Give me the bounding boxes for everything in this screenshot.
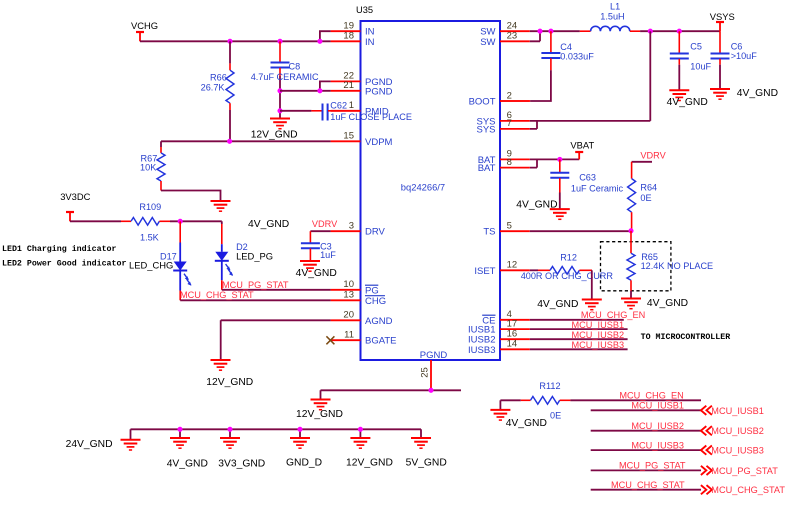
- junction C5: [677, 29, 682, 34]
- svg-text:U35: U35: [356, 5, 373, 15]
- svg-text:BOOT: BOOT: [469, 97, 496, 108]
- junction bus GND_D: [297, 427, 302, 432]
- wire pin23 loop: [530, 31, 540, 41]
- wire SYS net: [530, 31, 651, 121]
- svg-text:C62: C62: [330, 101, 347, 111]
- pin 25 PGND: [420, 350, 448, 390]
- svg-text:TO MICROCONTROLLER: TO MICROCONTROLLER: [641, 333, 731, 342]
- resistor R12: [521, 253, 614, 281]
- svg-text:4V_GND: 4V_GND: [296, 268, 337, 279]
- svg-text:R109: R109: [139, 202, 161, 212]
- svg-text:R12: R12: [560, 253, 577, 263]
- svg-text:18: 18: [343, 31, 354, 42]
- svg-text:C5: C5: [690, 42, 702, 52]
- wire MCU_IUSB3 to pin14: [530, 340, 628, 350]
- ground 4V_GND bus: [167, 438, 208, 470]
- svg-text:TS: TS: [483, 227, 495, 238]
- svg-text:CHG: CHG: [365, 296, 386, 307]
- ground 24V_GND: [66, 439, 141, 450]
- offpage connector MCU_IUSB1: [701, 406, 764, 416]
- svg-text:24V_GND: 24V_GND: [66, 439, 113, 450]
- svg-text:10uF: 10uF: [690, 61, 711, 71]
- svg-text:4V_GND: 4V_GND: [537, 299, 578, 310]
- svg-text:12: 12: [507, 260, 518, 271]
- pin 22 PGND: [331, 71, 393, 88]
- wire MCU_CHG_EN to pin4: [530, 310, 645, 320]
- ground at C6: [710, 88, 778, 99]
- wire VCHG main: [140, 40, 331, 42]
- wire VDRV stub: [632, 151, 667, 162]
- svg-text:MCU_IUSB1: MCU_IUSB1: [572, 320, 625, 330]
- wire VDPM: [161, 140, 331, 142]
- pin 3 DRV: [331, 221, 386, 238]
- pin 9 BAT: [478, 149, 530, 166]
- resistor R109: [121, 202, 170, 243]
- pin 16 IUSB2: [468, 329, 530, 346]
- junction C8-PGND: [277, 88, 282, 93]
- label TO MICROCONTROLLER: [641, 333, 731, 342]
- ground at C3: [296, 261, 337, 279]
- svg-text:L1: L1: [610, 2, 620, 12]
- offpage connector MCU_IUSB3: [701, 446, 764, 456]
- wire MCU_CHG_EN row: [570, 391, 701, 401]
- wire pin8 loop: [530, 159, 537, 167]
- pin 17 IUSB1: [468, 318, 530, 335]
- svg-text:PGND: PGND: [365, 86, 393, 97]
- svg-text:R64: R64: [640, 182, 657, 192]
- capacitor C8: [251, 41, 319, 91]
- wire R12 to ground: [591, 270, 593, 298]
- pin 14 IUSB3: [468, 339, 530, 356]
- junction bus 4V: [177, 427, 182, 432]
- pin 8 BAT: [478, 157, 530, 174]
- svg-text:4V_GND: 4V_GND: [506, 418, 547, 429]
- junction VCHG-C8: [277, 39, 282, 44]
- capacitor C63: [550, 159, 623, 208]
- svg-text:DRV: DRV: [365, 227, 386, 238]
- junction TS-R64-R65: [628, 228, 633, 233]
- junction SW-pin23: [537, 29, 542, 34]
- pin 7 SYS: [476, 118, 529, 135]
- svg-text:4V_GND: 4V_GND: [737, 88, 778, 99]
- svg-text:13: 13: [343, 290, 354, 301]
- svg-text:0E: 0E: [640, 193, 651, 203]
- svg-text:MCU_PG_STAT: MCU_PG_STAT: [222, 280, 289, 290]
- svg-text:0.033uF: 0.033uF: [560, 52, 594, 62]
- svg-text:7: 7: [507, 118, 512, 129]
- pin 1 PMID: [331, 100, 389, 117]
- svg-text:MCU_CHG_EN: MCU_CHG_EN: [619, 391, 683, 401]
- wire pin7 loop: [530, 121, 537, 129]
- svg-text:4V_GND: 4V_GND: [516, 200, 557, 211]
- ground 3V3_GND bus: [218, 438, 265, 470]
- svg-text:8: 8: [507, 157, 512, 168]
- ground 12V_GND at PGND: [296, 400, 343, 421]
- capacitor C62: [280, 101, 412, 123]
- svg-text:bq24266/7: bq24266/7: [401, 182, 445, 193]
- svg-text:VDRV: VDRV: [640, 151, 666, 161]
- svg-text:SYS: SYS: [476, 124, 495, 135]
- svg-text:VBAT: VBAT: [570, 140, 594, 151]
- node VSYS port: [710, 11, 735, 31]
- svg-text:MCU_IUSB2: MCU_IUSB2: [572, 330, 625, 340]
- svg-text:1: 1: [349, 100, 354, 111]
- node 3V3DC port: [60, 191, 90, 221]
- svg-text:PG: PG: [365, 285, 379, 296]
- svg-text:MCU_IUSB2: MCU_IUSB2: [711, 426, 764, 436]
- svg-text:IUSB3: IUSB3: [468, 345, 495, 356]
- pin 13 CHG: [331, 290, 387, 307]
- svg-text:4V_GND: 4V_GND: [167, 459, 208, 470]
- svg-text:AGND: AGND: [365, 316, 393, 327]
- wire TS net: [530, 230, 631, 232]
- pin 20 AGND: [331, 310, 393, 327]
- svg-text:C63: C63: [579, 173, 596, 183]
- junction bus 3V3: [227, 427, 232, 432]
- node VCHG port: [131, 20, 158, 41]
- svg-text:14: 14: [507, 339, 518, 350]
- svg-text:IN: IN: [365, 37, 375, 48]
- label LED1 annotation: [2, 244, 117, 254]
- svg-text:LED_PG: LED_PG: [236, 251, 273, 262]
- svg-text:C6: C6: [731, 42, 743, 52]
- wire MCU_IUSB1 to pin17: [530, 320, 628, 330]
- wire MCU_IUSB3 row: [591, 440, 701, 450]
- resistor R65: [627, 231, 713, 298]
- svg-text:C4: C4: [560, 42, 572, 52]
- svg-text:12V_GND: 12V_GND: [251, 130, 298, 141]
- svg-text:21: 21: [343, 80, 354, 91]
- svg-text:MCU_PG_STAT: MCU_PG_STAT: [711, 466, 778, 476]
- svg-text:MCU_CHG_STAT: MCU_CHG_STAT: [180, 290, 254, 300]
- svg-text:23: 23: [507, 31, 518, 42]
- resistor R67: [140, 141, 165, 190]
- svg-text:3V3_GND: 3V3_GND: [218, 459, 265, 470]
- svg-text:5V_GND: 5V_GND: [406, 458, 447, 469]
- wire pin19 loop: [320, 31, 331, 41]
- box R65 no-place dashed: [601, 242, 671, 291]
- ground at R12: [537, 299, 602, 310]
- resistor R64: [628, 162, 658, 231]
- wire PGND pins: [280, 81, 331, 90]
- wire L1 to VSYS: [640, 30, 720, 32]
- ground at C63: [516, 200, 570, 220]
- pin 2 BOOT: [469, 90, 530, 107]
- svg-text:26.7K: 26.7K: [201, 83, 225, 93]
- label 4V_GND near DRV: [248, 219, 289, 230]
- svg-text:25: 25: [420, 367, 431, 378]
- pin 6 SYS: [476, 110, 529, 127]
- svg-text:12V_GND: 12V_GND: [206, 377, 253, 388]
- junction PGND: [317, 88, 322, 93]
- svg-text:4.7uF CERAMIC: 4.7uF CERAMIC: [251, 72, 319, 82]
- svg-text:MCU_PG_STAT: MCU_PG_STAT: [619, 461, 686, 471]
- ground 12V_GND at C8: [251, 119, 298, 141]
- junction PGND-pin25: [428, 388, 433, 393]
- svg-text:ISET: ISET: [474, 266, 495, 277]
- pin 15 VDPM: [331, 131, 393, 148]
- svg-text:>10uF: >10uF: [731, 51, 758, 61]
- svg-text:1uF CLOSE PLACE: 1uF CLOSE PLACE: [330, 112, 412, 122]
- offpage connector MCU_CHG_STAT: [701, 485, 785, 495]
- svg-text:MCU_CHG_STAT: MCU_CHG_STAT: [711, 485, 785, 495]
- svg-text:MCU_IUSB1: MCU_IUSB1: [631, 401, 684, 411]
- svg-text:BGATE: BGATE: [365, 336, 397, 347]
- svg-text:BAT: BAT: [478, 163, 496, 174]
- inductor L1: [580, 2, 640, 32]
- svg-text:4V_GND: 4V_GND: [667, 97, 708, 108]
- wire R112 gnd stub: [499, 400, 501, 409]
- svg-text:VSYS: VSYS: [710, 11, 735, 22]
- capacitor C5: [670, 31, 712, 90]
- ground at AGND: [206, 360, 253, 388]
- wire MCU_IUSB1 row: [591, 401, 701, 411]
- wire PGND net: [321, 390, 462, 399]
- svg-text:1uF Ceramic: 1uF Ceramic: [571, 183, 624, 193]
- offpage connector MCU_IUSB2: [701, 426, 764, 436]
- resistor R66: [201, 41, 234, 141]
- svg-text:VDRV: VDRV: [312, 219, 338, 229]
- wire MCU_IUSB2 row: [591, 421, 701, 431]
- ground at C5: [667, 90, 708, 108]
- svg-text:1.5uH: 1.5uH: [600, 11, 624, 21]
- svg-text:MCU_CHG_STAT: MCU_CHG_STAT: [611, 480, 685, 490]
- wire ground bus: [131, 429, 422, 439]
- svg-text:12V_GND: 12V_GND: [296, 409, 343, 420]
- svg-text:3: 3: [349, 221, 354, 232]
- wire MCU_CHG_STAT row: [591, 480, 701, 490]
- svg-text:MCU_IUSB1: MCU_IUSB1: [711, 406, 764, 416]
- pin 10 PG: [331, 279, 379, 296]
- ground GND_D bus: [286, 438, 322, 469]
- ground at R112: [490, 410, 547, 429]
- wire BAT net: [530, 158, 579, 160]
- svg-text:VCHG: VCHG: [131, 20, 158, 31]
- svg-text:SW: SW: [480, 37, 495, 48]
- svg-text:11: 11: [344, 330, 354, 341]
- svg-text:2: 2: [507, 90, 512, 101]
- svg-text:20: 20: [343, 310, 354, 321]
- capacitor C3: [301, 231, 336, 260]
- svg-text:LED2 Power Good indicator: LED2 Power Good indicator: [2, 259, 126, 269]
- wire R67 to ground: [161, 191, 221, 201]
- svg-text:5: 5: [507, 221, 512, 232]
- ground 5V_GND bus: [406, 438, 447, 469]
- reference designator U35: [356, 5, 373, 15]
- label LED2 annotation: [2, 259, 126, 269]
- svg-text:MCU_IUSB3: MCU_IUSB3: [711, 446, 764, 456]
- svg-text:10: 10: [343, 279, 354, 290]
- svg-text:VDPM: VDPM: [365, 137, 393, 148]
- svg-text:400R OR CHG_CURR: 400R OR CHG_CURR: [521, 271, 614, 281]
- wire MCU_CHG_STAT to pin13: [180, 290, 331, 301]
- pin 5 TS: [483, 221, 529, 238]
- svg-text:R66: R66: [210, 73, 227, 83]
- pin 23 SW: [480, 31, 530, 48]
- ground 12V_GND bus: [346, 438, 393, 469]
- svg-text:3V3DC: 3V3DC: [60, 191, 90, 202]
- junction bus 12V: [358, 427, 363, 432]
- svg-text:12.4K NO PLACE: 12.4K NO PLACE: [641, 261, 714, 271]
- junction SYS riser: [648, 29, 653, 34]
- svg-text:C8: C8: [289, 62, 301, 72]
- wire C8 to ground: [279, 91, 281, 118]
- capacitor C6: [711, 31, 758, 88]
- wire AGND: [221, 320, 331, 359]
- junction R66-VDPM: [227, 139, 232, 144]
- svg-text:LED1 Charging indicator: LED1 Charging indicator: [2, 244, 117, 254]
- wire MCU_IUSB2 to pin16: [530, 330, 628, 340]
- svg-text:1uF: 1uF: [320, 250, 336, 260]
- ground at R67: [211, 201, 231, 211]
- pin 11 BGATE: [331, 330, 397, 347]
- wire R109 to LEDs: [170, 220, 222, 222]
- svg-text:LED_CHG: LED_CHG: [129, 260, 173, 271]
- pin 21 PGND: [331, 80, 393, 97]
- svg-text:1.5K: 1.5K: [140, 233, 159, 243]
- svg-text:10K: 10K: [140, 163, 156, 173]
- svg-text:MCU_IUSB3: MCU_IUSB3: [631, 440, 684, 450]
- junction BAT-C63: [557, 157, 562, 162]
- svg-text:15: 15: [343, 131, 354, 142]
- wire 3V3DC to R109: [70, 220, 121, 222]
- pin 4 CE: [482, 309, 530, 326]
- junction SW-C4: [548, 29, 553, 34]
- junction VCHG-pin18: [317, 39, 322, 44]
- junction R109-D17: [178, 219, 183, 224]
- wire SW net: [530, 30, 580, 32]
- pin 19 IN: [331, 21, 375, 38]
- svg-text:MCU_IUSB3: MCU_IUSB3: [572, 340, 625, 350]
- pin 12 ISET: [474, 260, 529, 277]
- pin 24 SW: [480, 21, 530, 38]
- svg-text:R112: R112: [539, 381, 560, 391]
- svg-text:4V_GND: 4V_GND: [248, 219, 289, 230]
- wire MCU_PG_STAT row: [591, 461, 701, 471]
- pin 18 IN: [331, 31, 375, 48]
- resistor R112: [500, 381, 570, 420]
- ground at R65: [621, 298, 688, 309]
- capacitor C4: [500, 31, 594, 101]
- junction VCHG-R66: [227, 39, 232, 44]
- diode D17 LED_CHG: [129, 221, 191, 300]
- op-amp U35 bq24266/7 charger IC body: [361, 21, 501, 360]
- diode D2 LED_PG: [215, 221, 273, 289]
- svg-text:PGND: PGND: [420, 350, 448, 361]
- node VBAT port: [570, 140, 594, 160]
- wire DRV: [310, 219, 338, 231]
- junction C8-C62: [277, 108, 282, 113]
- svg-text:MCU_IUSB2: MCU_IUSB2: [631, 421, 684, 431]
- svg-text:12V_GND: 12V_GND: [346, 458, 393, 469]
- svg-text:GND_D: GND_D: [286, 458, 322, 469]
- svg-text:4V_GND: 4V_GND: [647, 298, 688, 309]
- svg-text:MCU_CHG_EN: MCU_CHG_EN: [581, 310, 645, 320]
- wire MCU_PG_STAT to pin10: [222, 280, 331, 290]
- no-connect X at BGATE: [326, 336, 334, 344]
- svg-text:0E: 0E: [550, 410, 561, 420]
- offpage connector MCU_PG_STAT: [701, 466, 778, 476]
